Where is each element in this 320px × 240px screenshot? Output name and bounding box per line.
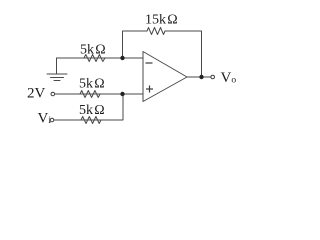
node junction dot output [199,75,203,79]
svg-text:5kΩ: 5kΩ [79,77,105,92]
terminal circle Vo [211,75,215,79]
svg-text:5kΩ: 5kΩ [79,103,105,118]
op-amp minus sign [146,62,153,64]
svg-text:2V: 2V [27,86,46,102]
op-amp U1 triangle [143,52,187,102]
resistor R1 5kΩ row1 zigzag [84,55,105,62]
resistor R3 5kΩ row2 zigzag [80,91,100,98]
terminal circle Vi [50,118,54,122]
wire row3 from Vi terminal up to non-inverting node [54,94,123,120]
wire feedback right to output node [165,31,202,77]
resistor R4 5kΩ row3 zigzag [81,117,101,124]
wire row1 ground to inverting input [57,57,144,59]
ground symbol bars [47,74,67,81]
wire feedback left vertical (inverting node to 15k) [123,31,148,58]
wire row2 from 2V terminal to non-inverting input [55,93,143,95]
node junction dot inverting input [120,56,124,60]
svg-text:5kΩ: 5kΩ [80,43,106,58]
node junction dot non-inverting input [120,92,124,96]
resistor R2 15kΩ zigzag [147,28,165,35]
wire output [187,76,211,78]
ground stem [56,58,58,74]
op-amp plus sign [146,86,153,93]
terminal circle 2V [51,92,55,96]
svg-text:15kΩ: 15kΩ [145,13,178,28]
